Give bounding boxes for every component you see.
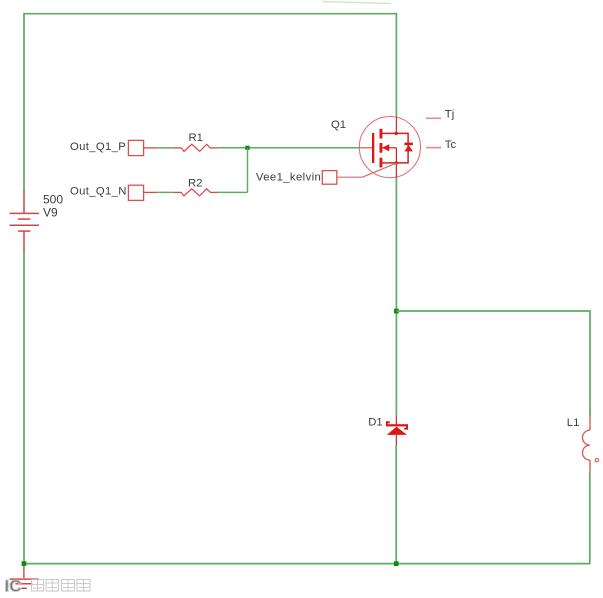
node: mid junction (394, 309, 399, 314)
circle body (359, 117, 420, 178)
wire: ground stub (23, 566, 25, 579)
watermark IC... (5, 577, 91, 596)
wire: bottom rail (23, 563, 590, 565)
faint top artifact line (322, 2, 391, 4)
svg-text:Out_Q1_N: Out_Q1_N (70, 186, 127, 198)
gate bar (372, 133, 374, 163)
svg-text:V9: V9 (43, 206, 58, 220)
svg-text:Tj: Tj (445, 109, 454, 121)
source horizontal (382, 162, 408, 164)
gate red stub (359, 147, 372, 149)
wire: branch to L1 horizontal (396, 310, 590, 312)
anode red lead (top) (395, 416, 397, 426)
wire: L1 drop (589, 310, 591, 416)
body-diode branch vertical (407, 133, 409, 164)
source node dot (395, 161, 398, 164)
source red lead (395, 163, 397, 178)
port Out_Q1_N (128, 185, 143, 200)
pin Tc dash (426, 147, 441, 149)
arrow tail line (389, 147, 396, 149)
node: bottom junction (394, 561, 399, 566)
svg-text:Tc: Tc (445, 139, 457, 151)
cathode red lead (bottom) (395, 435, 397, 446)
svg-text:R1: R1 (189, 132, 203, 144)
battery V9 (10, 191, 40, 252)
port Out_Q1_P (128, 140, 143, 155)
wire: junction down to R2 level (247, 148, 249, 193)
body diode triangle (404, 145, 413, 151)
drain red lead (395, 117, 397, 133)
resistor R1 (181, 144, 210, 151)
node: gate junction (245, 146, 249, 150)
svg-text:500: 500 (43, 192, 63, 206)
channel bar top (380, 129, 383, 139)
transistor Q1 (359, 117, 420, 179)
svg-text:Q1: Q1 (331, 119, 346, 131)
wire: left rail upper (23, 14, 25, 192)
wire: top rail (23, 13, 397, 15)
drain horizontal (382, 132, 408, 134)
wire: left rail lower (23, 251, 25, 563)
svg-text:R2: R2 (188, 177, 202, 189)
svg-text:D1: D1 (368, 417, 382, 429)
wire: R2 to junction riser (210, 191, 218, 193)
body to source line (395, 148, 397, 163)
ground (10, 579, 39, 588)
wire: kelvin diagonal (362, 163, 396, 177)
resistor R2 (181, 189, 210, 196)
wire: drain drop from top rail (395, 13, 397, 118)
svg-text:Vee1_kelvin: Vee1_kelvin (256, 172, 321, 184)
svg-text:IC: IC (5, 577, 22, 596)
body diode cathode bar (404, 143, 413, 146)
wire: source down to mid junction (395, 178, 397, 416)
wire: R1 to gate junction (210, 147, 218, 149)
wire: N port to R2 (144, 191, 158, 193)
wire: P port to R1 (144, 147, 158, 149)
svg-text:L1: L1 (567, 417, 580, 429)
port Vee1_kelvin (322, 171, 337, 185)
schottky cathode bar (386, 421, 408, 429)
wire: L1 to bottom rail (589, 472, 591, 565)
diode triangle (387, 427, 407, 435)
channel bar bottom (380, 158, 383, 168)
substrate arrow (382, 144, 390, 151)
inductor L1 (583, 416, 599, 473)
wire: diode to bottom junction (395, 445, 397, 563)
svg-text:Out_Q1_P: Out_Q1_P (70, 141, 126, 153)
channel bar mid (380, 143, 383, 153)
pin Tj dash (426, 117, 441, 119)
wire: kelvin horizontal (337, 176, 363, 178)
drain node dot (395, 132, 398, 135)
node: ground junction (22, 561, 27, 566)
diode D1 (386, 416, 408, 446)
